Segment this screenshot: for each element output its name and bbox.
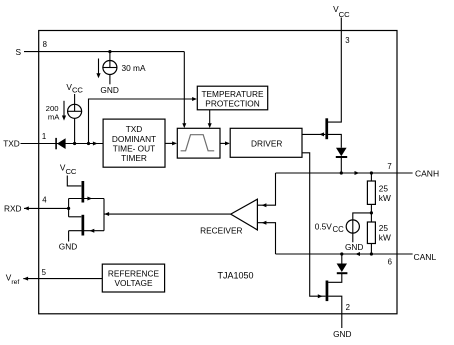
arrow timer to slope control: [172, 141, 177, 145]
wire 30mA source bottom to GND: [109, 75, 111, 85]
wire temperature protection to slope control: [209, 110, 211, 127]
wire Vref pin: [23, 278, 102, 280]
arrow current direction 30mA: [98, 59, 100, 74]
wire TXD to temperature protection: [89, 99, 196, 144]
svg-text:TXD: TXD: [126, 124, 143, 134]
wire S vertical to slope box: [183, 52, 185, 127]
arrow into driver: [225, 141, 230, 145]
svg-text:REFERENCE: REFERENCE: [108, 268, 160, 278]
block DRIVER: [230, 128, 302, 157]
wire receiver input from CANH: [257, 173, 275, 205]
svg-text:2: 2: [346, 303, 350, 312]
wire NMOS source lead to pin 2: [328, 296, 342, 328]
svg-text:TXD: TXD: [3, 139, 20, 149]
wire driver to PMOS gate: [302, 133, 325, 135]
wire Q4 drain lead: [69, 216, 82, 218]
node TXD / 200mA tap: [73, 142, 76, 145]
arrow PMOS gate (p-channel): [319, 132, 324, 136]
wire VCC to 200mA source: [74, 94, 76, 111]
wire node to 0.5VCC source: [353, 213, 372, 242]
svg-text:TEMPERATURE: TEMPERATURE: [201, 89, 264, 99]
arrow TXD into timer: [93, 142, 98, 146]
current source 200 mA: [68, 104, 82, 118]
arrow into slope control: [208, 123, 212, 128]
svg-text:TJA1050: TJA1050: [218, 270, 254, 280]
wire driver to NMOS gate: [302, 153, 326, 296]
node resistor midpoint: [370, 211, 373, 214]
wire RXD pin: [24, 207, 69, 209]
wire Q4 source to GND: [68, 231, 70, 242]
svg-text:GND: GND: [59, 241, 77, 251]
arrow Vref out: [23, 277, 28, 281]
arrow receiver input CANL: [262, 221, 267, 225]
arrow S into slope box: [182, 123, 186, 128]
wire VCC to upper FET: [67, 176, 81, 186]
block slope control U1: [177, 128, 220, 158]
current source 30 mA: [103, 61, 117, 75]
voltage source 0.5VCC: [346, 220, 359, 233]
wire diode to NMOS drain: [328, 273, 342, 282]
svg-text:8: 8: [43, 40, 47, 49]
wire RXD node vertical: [68, 199, 70, 217]
wire diode to CANH: [340, 157, 342, 173]
arrow Q3 gate (p-channel): [87, 197, 92, 201]
svg-text:6: 6: [388, 257, 392, 266]
arrow RXD out: [24, 206, 29, 210]
wire 30mA source top: [109, 52, 111, 68]
wire RT2 to CANL: [370, 244, 372, 255]
arrow current direction 200mA: [63, 101, 65, 116]
wire CANH to resistor RT1: [370, 173, 372, 181]
wire 200mA source to TXD line: [74, 118, 76, 143]
svg-text:GND: GND: [333, 329, 351, 339]
svg-text:5: 5: [42, 268, 47, 277]
wire timer to slope control: [165, 142, 176, 144]
wire slope control to driver: [220, 142, 229, 144]
svg-text:mA: mA: [48, 112, 60, 121]
svg-text:kW: kW: [379, 232, 391, 242]
svg-text:CANL: CANL: [414, 252, 437, 262]
node resistor/CANH: [370, 171, 373, 174]
IC outline box: [39, 31, 397, 314]
arrow receiver input CANH: [262, 203, 267, 207]
node TXD / temperature branch tap: [87, 142, 90, 145]
arrow Q4 gate (n-channel): [90, 229, 95, 233]
arrow receiver output: [104, 212, 109, 216]
svg-text:1: 1: [42, 132, 46, 141]
svg-text:25: 25: [379, 183, 389, 193]
wire Q4 source and gate lead: [69, 230, 104, 232]
svg-text:S: S: [15, 47, 21, 57]
node diode/CANL: [340, 252, 343, 255]
transistor Q2 low-side gate bar: [326, 281, 329, 302]
diode D1 on TXD line: [55, 138, 57, 149]
svg-text:TIME- OUT: TIME- OUT: [113, 143, 155, 153]
svg-text:RXD: RXD: [4, 204, 22, 214]
svg-text:TIMER: TIMER: [121, 153, 147, 163]
node resistor/CANL: [370, 252, 373, 255]
wire gate node vertical: [103, 199, 105, 231]
svg-text:GND: GND: [100, 85, 118, 95]
arrow CANH current: [355, 171, 360, 175]
svg-text:DRIVER: DRIVER: [251, 138, 282, 148]
op-amp RECEIVER comparator: [231, 199, 258, 230]
wire Q3 drain and gate lead: [69, 198, 104, 200]
svg-text:4: 4: [42, 196, 47, 205]
node RXD: [67, 207, 70, 210]
transistor Q4 RXD pull-down gate bar: [82, 215, 85, 236]
wire VCC pin 3 to transistor: [328, 18, 341, 123]
wire TXD: [21, 143, 104, 145]
wire RT1 to node: [370, 204, 372, 222]
arrow NMOS gate (n-channel): [318, 294, 323, 298]
block REFERENCE VOLTAGE: [102, 264, 164, 292]
wire PMOS source lead: [328, 134, 341, 147]
transistor Q1 high-side gate bar: [325, 118, 328, 139]
block TXD DOMINANT TIME-OUT TIMER: [103, 119, 165, 167]
diode D2 high side: [336, 148, 347, 157]
transistor Q3 RXD pull-up gate bar: [82, 181, 85, 203]
svg-text:PROTECTION: PROTECTION: [205, 99, 259, 109]
resistor RT1 25kW: [367, 181, 375, 204]
wire S horizontal: [24, 51, 184, 53]
svg-text:DOMINANT: DOMINANT: [112, 134, 156, 144]
wire CANL to low diode: [341, 254, 343, 264]
wire receiver input from CANL: [257, 223, 275, 254]
block TEMPERATURE PROTECTION: [197, 86, 267, 110]
node S / 30mA tap: [108, 50, 111, 53]
wire receiver output to gates: [104, 213, 231, 215]
svg-text:30 mA: 30 mA: [122, 63, 146, 73]
svg-text:GND: GND: [345, 242, 363, 252]
wire CANL line: [276, 253, 413, 255]
svg-text:7: 7: [387, 162, 391, 171]
svg-text:3: 3: [345, 36, 349, 45]
node diode/CANH: [340, 171, 343, 174]
arrow into temperature protection: [192, 97, 197, 101]
wire CANH line: [276, 172, 413, 174]
svg-text:VOLTAGE: VOLTAGE: [115, 278, 153, 288]
waveform trapezoid: [181, 135, 215, 151]
svg-text:RECEIVER: RECEIVER: [200, 226, 242, 236]
svg-text:CANH: CANH: [415, 169, 439, 179]
resistor RT2 25kW: [367, 222, 375, 244]
diode D3 low side: [337, 264, 347, 273]
arrow CANL current: [355, 252, 360, 256]
svg-text:kW: kW: [379, 193, 391, 203]
